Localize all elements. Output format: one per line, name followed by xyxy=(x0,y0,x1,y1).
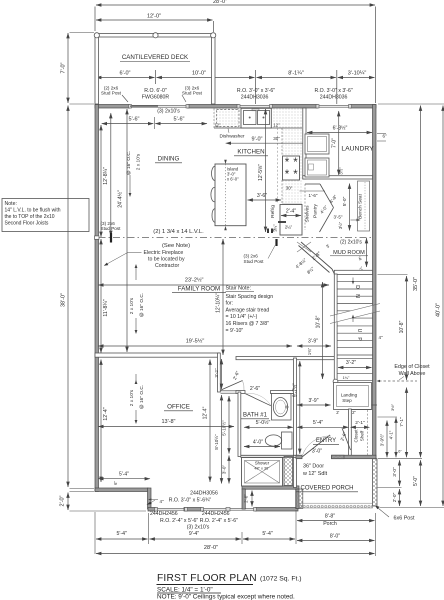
wall porch west xyxy=(296,489,299,509)
pantry angled front xyxy=(320,184,334,208)
svg-text:2": 2" xyxy=(352,410,356,415)
svg-text:Stair Note:: Stair Note: xyxy=(226,286,251,292)
svg-text:30": 30" xyxy=(286,186,293,191)
svg-text:Step: Step xyxy=(342,398,352,403)
stair break diagonals xyxy=(337,305,372,321)
svg-text:4'-1": 4'-1" xyxy=(389,430,394,439)
dim 7'-1" closet right xyxy=(406,388,408,458)
window sliding door FWG6080R xyxy=(130,104,188,106)
front door sill+sidelight xyxy=(332,455,345,459)
svg-text:(3) 2x10's: (3) 2x10's xyxy=(187,524,210,530)
svg-text:x 6'-0": x 6'-0" xyxy=(227,177,239,182)
svg-text:*: * xyxy=(285,169,290,181)
wall bath north xyxy=(236,391,245,394)
svg-text:ENTRY: ENTRY xyxy=(316,438,336,444)
window 244DH3036 #1 in top wall xyxy=(239,104,272,106)
svg-text:2¼": 2¼" xyxy=(285,225,293,230)
island dim line dotted xyxy=(225,164,227,226)
dim 28'-0" overall width (top) xyxy=(96,4,375,6)
svg-text:Contractor: Contractor xyxy=(155,263,179,269)
dim 12'-4" office right xyxy=(209,360,211,483)
dim 2'-0" jog (left) xyxy=(67,493,69,511)
svg-text:FWG6080R: FWG6080R xyxy=(142,95,170,101)
post ticks at island-right xyxy=(267,229,269,234)
deck post circles xyxy=(94,33,99,38)
svg-text:for:: for: xyxy=(226,301,234,307)
svg-text:244DH3056: 244DH3056 xyxy=(190,491,218,497)
svg-text:3'-9": 3'-9" xyxy=(309,398,319,404)
svg-text:3½": 3½" xyxy=(339,167,344,175)
dim 2'-0" bath nook xyxy=(251,491,253,507)
svg-text:R.O. 3'-0" x 3'-6": R.O. 3'-0" x 3'-6" xyxy=(314,88,352,94)
svg-text:Stud Post: Stud Post xyxy=(101,226,122,231)
closet shelf dashed xyxy=(367,410,369,455)
svg-text:5'-0": 5'-0" xyxy=(342,196,348,206)
dims office notch 3'-2" 8'-10 1/2" xyxy=(221,359,223,389)
svg-text:D: D xyxy=(354,285,360,289)
svg-text:9'-4": 9'-4" xyxy=(189,531,199,537)
range/cooktop with burners xyxy=(283,156,300,180)
svg-text:Landing: Landing xyxy=(341,393,358,398)
svg-text:12'-5⅝": 12'-5⅝" xyxy=(258,164,264,181)
kitchen sink counter xyxy=(241,108,271,128)
toilet xyxy=(282,432,293,449)
dim 10'-8" hall/stairs xyxy=(322,282,324,379)
svg-text:= 10 1/4" (+/-): = 10 1/4" (+/-) xyxy=(226,314,258,320)
wall office east notch xyxy=(218,353,221,392)
svg-text:BATH #1: BATH #1 xyxy=(243,413,268,419)
svg-text:5'-4": 5'-4" xyxy=(117,531,127,537)
svg-text:12": 12" xyxy=(273,122,280,127)
svg-text:4": 4" xyxy=(160,499,165,504)
wall shower north xyxy=(241,454,300,456)
svg-text:SCALE: 1/4" = 1'-0": SCALE: 1/4" = 1'-0" xyxy=(157,587,213,594)
bath vanity xyxy=(272,394,292,421)
wall front (south, office) xyxy=(148,508,156,512)
svg-text:= 9'-10": = 9'-10" xyxy=(226,328,244,334)
svg-text:10'-0": 10'-0" xyxy=(192,71,206,77)
mud room x-brace xyxy=(297,242,311,252)
dim 4'-1" closet xyxy=(395,418,397,458)
dashed edge of closet wall above xyxy=(379,380,417,382)
svg-text:3'-2": 3'-2" xyxy=(214,368,219,378)
office door leaf xyxy=(221,381,243,391)
svg-text:Second Floor Joists: Second Floor Joists xyxy=(5,221,49,227)
svg-text:28'-0": 28'-0" xyxy=(204,545,218,551)
svg-text:6": 6" xyxy=(113,481,118,485)
svg-text:w 12" Sdlt: w 12" Sdlt xyxy=(302,471,328,477)
newel circle xyxy=(333,379,338,384)
dim 19'-5 1/2" xyxy=(98,345,292,347)
svg-text:4": 4" xyxy=(379,335,384,340)
svg-text:@ 16" O.C.: @ 16" O.C. xyxy=(126,151,132,175)
svg-text:(1072 Sq. Ft.): (1072 Sq. Ft.) xyxy=(260,576,302,583)
svg-text:3½": 3½" xyxy=(338,221,343,229)
svg-text:8'-8": 8'-8" xyxy=(325,513,335,519)
svg-text:KITCHEN: KITCHEN xyxy=(237,149,264,156)
shower 48x36 xyxy=(242,458,283,487)
svg-text:2 x 10's: 2 x 10's xyxy=(136,153,142,170)
dim 10'-8" right exterior xyxy=(406,276,408,380)
svg-text:@ 16" O.C.: @ 16" O.C. xyxy=(139,293,145,317)
svg-text:12'-4": 12'-4" xyxy=(202,406,208,419)
svg-text:6x6 Post: 6x6 Post xyxy=(394,516,415,522)
svg-text:R.O. 3'-0" x 5'-6¾": R.O. 3'-0" x 5'-6¾" xyxy=(169,498,212,504)
dim 7'-0" deck depth (left) xyxy=(67,33,69,103)
svg-text:DINING: DINING xyxy=(158,156,180,163)
wall laundry south xyxy=(303,176,373,179)
closet north edge xyxy=(351,409,371,411)
svg-text:(2) 2x10's: (2) 2x10's xyxy=(340,240,362,246)
svg-text:LAUNDRY: LAUNDRY xyxy=(341,146,374,153)
svg-text:Stud Post: Stud Post xyxy=(101,91,122,96)
svg-text:30": 30" xyxy=(273,136,280,141)
svg-text:6'-8½": 6'-8½" xyxy=(333,125,348,132)
svg-text:2 x 10's: 2 x 10's xyxy=(129,297,135,314)
svg-text:40'-0": 40'-0" xyxy=(435,303,441,317)
svg-text:Closet: Closet xyxy=(354,429,359,443)
svg-text:5'-6": 5'-6" xyxy=(174,117,185,123)
svg-text:5'-4": 5'-4" xyxy=(262,531,272,537)
washer xyxy=(305,134,329,154)
svg-text:3'-2": 3'-2" xyxy=(346,360,356,366)
svg-text:3'-9½": 3'-9½" xyxy=(380,433,385,446)
wall family-room south (office north) xyxy=(95,353,220,357)
svg-text:1'-6": 1'-6" xyxy=(309,193,318,198)
wall bath/entry east xyxy=(294,358,297,488)
dryer xyxy=(305,158,329,177)
svg-text:to be located by: to be located by xyxy=(148,256,185,262)
dim 2'-0" porch xyxy=(399,489,401,506)
dim 9'-0" kitchen + 30" xyxy=(226,142,314,144)
svg-text:8'-10½": 8'-10½" xyxy=(213,434,219,450)
svg-text:Refrig: Refrig xyxy=(270,205,276,218)
svg-text:Wall Above: Wall Above xyxy=(399,371,426,377)
svg-text:19'-5½": 19'-5½" xyxy=(186,338,205,345)
svg-text:3½": 3½" xyxy=(390,403,395,411)
svg-text:Average stair tread: Average stair tread xyxy=(226,307,270,313)
svg-text:3'-5": 3'-5" xyxy=(334,214,343,219)
svg-text:3'-0": 3'-0" xyxy=(392,467,398,477)
svg-text:24'-4½": 24'-4½" xyxy=(117,190,124,208)
svg-text:13'-8": 13'-8" xyxy=(161,419,175,425)
dim 3'-6" island to counter xyxy=(248,199,282,201)
svg-text:*: * xyxy=(293,157,298,169)
cantilevered deck walls xyxy=(95,34,215,38)
dim 11'-8 1/4" family (interior left) xyxy=(100,239,102,353)
dim 5'-6" / 5'-6" below slider xyxy=(102,123,154,125)
landing step box xyxy=(334,383,372,410)
dim 5'-0 1/2" bath xyxy=(244,426,293,428)
svg-text:1¼": 1¼" xyxy=(343,376,350,380)
linen/chase hatched xyxy=(284,457,293,486)
wall exterior right (east) xyxy=(373,105,377,459)
svg-text:6'-0": 6'-0" xyxy=(120,71,131,77)
svg-text:12'-4": 12'-4" xyxy=(103,407,109,420)
svg-text:3'-9": 3'-9" xyxy=(308,339,318,345)
mud room angled wall xyxy=(301,242,332,269)
svg-text:Porch: Porch xyxy=(323,521,337,527)
svg-text:OFFICE: OFFICE xyxy=(167,404,190,411)
svg-text:R.O. 2'-4" x 5'-6" R.O. 2: R.O. 2'-4" x 5'-6" R.O. 2'-4" x 5'-6" xyxy=(160,518,238,524)
svg-text:11'-8¼": 11'-8¼" xyxy=(103,299,109,316)
kitchen island xyxy=(215,164,246,226)
svg-text:38'-0": 38'-0" xyxy=(61,293,67,307)
dim 35'-0" (right) xyxy=(420,106,422,458)
svg-text:(See Note): (See Note) xyxy=(162,243,190,249)
pantry dashed west line xyxy=(304,184,306,230)
kitchen double sink bowls xyxy=(244,111,257,125)
dim 9'-7 1/2" bath east xyxy=(299,361,301,454)
svg-text:COVERED PORCH: COVERED PORCH xyxy=(300,486,353,492)
wall stairs west xyxy=(334,274,337,382)
wall exterior top (north) xyxy=(95,105,130,109)
dims office east edge 5'-10 1/2" 3'-0" xyxy=(228,396,230,454)
svg-text:7'-0": 7'-0" xyxy=(61,62,67,73)
front door leaf + swing xyxy=(302,435,330,457)
porch west hatched xyxy=(296,489,303,509)
stair treads lower (UP) xyxy=(337,325,372,327)
office door sill xyxy=(221,390,237,392)
svg-text:2': 2' xyxy=(336,410,339,415)
windows 244DH2456 pair in front wall xyxy=(202,507,255,509)
dim 23'-2 1/2" xyxy=(98,284,329,286)
svg-text:244DH3036: 244DH3036 xyxy=(320,95,348,101)
dim 12'-4" office (interior left) xyxy=(100,360,102,483)
svg-text:R.O. 3'-0" x 3'-6": R.O. 3'-0" x 3'-6" xyxy=(237,88,275,94)
svg-text:MUD ROOM: MUD ROOM xyxy=(333,250,365,256)
svg-text:35'-0": 35'-0" xyxy=(413,277,419,291)
kitchen counter stipple top xyxy=(214,109,241,128)
dim 24'-4 1/2" (interior left) xyxy=(126,109,128,352)
kitchen counter front edge xyxy=(214,127,302,129)
note box 14" LVL xyxy=(2,199,89,232)
wall hall south (right part) xyxy=(236,357,335,360)
svg-text:2'-1": 2'-1" xyxy=(355,420,365,426)
stair landing edges xyxy=(337,372,372,374)
svg-text:CANTILEVERED DECK: CANTILEVERED DECK xyxy=(122,54,189,61)
svg-text:U: U xyxy=(356,329,362,333)
wall kitchen/laundry (pantry west) xyxy=(303,108,306,179)
svg-text:FIRST FLOOR PLAN: FIRST FLOOR PLAN xyxy=(157,573,257,584)
dim 5'-0" bench xyxy=(349,184,351,231)
svg-text:244DH2456: 244DH2456 xyxy=(202,511,230,517)
wall jog bottom-left (office south-west) xyxy=(95,488,148,492)
dim 3'-9" hall width xyxy=(297,345,331,347)
svg-text:2'-0": 2'-0" xyxy=(60,495,66,506)
svg-text:2'-4": 2'-4" xyxy=(286,209,296,215)
svg-text:7'-1": 7'-1" xyxy=(399,417,405,427)
right extension lines xyxy=(378,103,444,105)
svg-text:5'-6": 5'-6" xyxy=(129,117,140,123)
kitchen counter east strip xyxy=(282,128,302,204)
svg-text:(3) 2x6: (3) 2x6 xyxy=(244,254,259,259)
svg-text:Dishwasher: Dishwasher xyxy=(219,134,244,140)
dim 3'-0" porch xyxy=(399,460,401,486)
dim 12'-10 1/4" family right xyxy=(222,239,224,355)
svg-text:16 Risers @ 7 3/8": 16 Risers @ 7 3/8" xyxy=(226,321,270,327)
svg-text:10'-8": 10'-8" xyxy=(399,320,405,333)
svg-text:5'-0½": 5'-0½" xyxy=(256,419,271,426)
bench seat (dashed) xyxy=(358,181,370,231)
bath door leaf xyxy=(245,394,271,406)
dim 5'-4" office lower-left xyxy=(98,478,150,480)
svg-text:2'-6": 2'-6" xyxy=(250,386,260,392)
porch east hatched post/wall xyxy=(373,459,378,506)
svg-text:7'-0": 7'-0" xyxy=(331,138,337,148)
wall closet west xyxy=(349,409,352,457)
svg-text:4'-0": 4'-0" xyxy=(253,439,263,445)
svg-text:12'-0": 12'-0" xyxy=(147,14,161,20)
svg-text:(2) 1 3/4 x 14 L.V.L.: (2) 1 3/4 x 14 L.V.L. xyxy=(153,229,204,235)
svg-text:6": 6" xyxy=(382,134,387,139)
dim 7'-0" laundry depth xyxy=(338,111,340,175)
svg-text:Stud Post: Stud Post xyxy=(244,259,265,264)
svg-text:9'-0": 9'-0" xyxy=(252,136,263,142)
svg-text:10'-8": 10'-8" xyxy=(315,315,321,328)
svg-text:Stud Post: Stud Post xyxy=(182,91,203,96)
svg-text:12'-10¼": 12'-10¼" xyxy=(216,293,222,313)
dim 6'-8 1/2" laundry xyxy=(307,132,372,134)
dim 5'-4" + 2'-1" entry row xyxy=(297,426,349,428)
svg-text:23'-2½": 23'-2½" xyxy=(185,277,204,284)
wall entry south xyxy=(296,455,302,459)
svg-text:the to TOP of the 2x10: the to TOP of the 2x10 xyxy=(5,214,55,220)
svg-text:244DH2456: 244DH2456 xyxy=(150,511,178,517)
svg-text:12'-8¼": 12'-8¼" xyxy=(103,167,109,185)
svg-text:Electric Fireplace: Electric Fireplace xyxy=(144,250,184,256)
stair treads upper (DN) xyxy=(337,281,372,283)
svg-text:2 x 10's: 2 x 10's xyxy=(129,389,135,406)
svg-text:Shelves: Shelves xyxy=(305,205,311,223)
svg-text:NOTE: 9'-0" Ceilings typical: NOTE: 9'-0" Ceilings typical except wher… xyxy=(157,594,295,600)
svg-text:2'-0": 2'-0" xyxy=(244,494,249,503)
porch south dotted edge xyxy=(299,503,373,508)
svg-text:Note:: Note: xyxy=(5,201,17,207)
svg-text:5'-4": 5'-4" xyxy=(119,471,129,477)
svg-text:Edge of Closet: Edge of Closet xyxy=(394,364,430,370)
dishwasher (dashed box) xyxy=(217,110,240,127)
svg-text:Stair Spacing design: Stair Spacing design xyxy=(226,294,274,300)
mud dim arrow xyxy=(366,238,368,267)
svg-text:5'-0": 5'-0" xyxy=(413,476,419,486)
svg-text:Shelf: Shelf xyxy=(360,430,365,441)
svg-text:3'-10¼": 3'-10¼" xyxy=(348,71,367,77)
wall exterior left (west) xyxy=(95,105,99,492)
LVL dashed beam line xyxy=(99,236,373,238)
svg-text:12": 12" xyxy=(214,122,221,127)
stud post tick kitchen + label xyxy=(275,239,277,246)
wall bath south xyxy=(242,486,299,489)
svg-text:2'-0": 2'-0" xyxy=(392,492,398,502)
dim 13'-8" office xyxy=(98,426,234,428)
svg-text:(3) 2x10's: (3) 2x10's xyxy=(157,109,180,115)
svg-text:8'-0": 8'-0" xyxy=(330,533,340,539)
svg-text:3'-6": 3'-6" xyxy=(257,193,267,199)
svg-text:FAMILY ROOM: FAMILY ROOM xyxy=(178,285,220,292)
dim 5'-0" porch (right) xyxy=(420,460,422,506)
svg-text:9'-7½": 9'-7½" xyxy=(291,383,298,397)
dim 4'-0" bath xyxy=(244,446,280,448)
dim 12'-5 5/8" kitchen interior xyxy=(265,109,267,232)
island stools (3 half-ellipses) xyxy=(211,166,214,180)
svg-text:N: N xyxy=(354,294,360,298)
svg-text:1¾": 1¾" xyxy=(307,347,312,355)
window 244DH3036 #2 in top wall xyxy=(318,104,351,106)
svg-text:8'-1¼": 8'-1¼" xyxy=(288,71,304,77)
svg-text:5'-4": 5'-4" xyxy=(313,420,323,426)
dim 12'-8 1/4" dining (interior left) xyxy=(100,125,102,237)
dim 38'-0" house depth (left) xyxy=(67,106,69,488)
svg-text:*: * xyxy=(285,157,290,169)
wall stairs north xyxy=(334,270,372,274)
svg-text:3'-0": 3'-0" xyxy=(312,449,322,455)
svg-text:36" Door: 36" Door xyxy=(303,464,324,470)
window 244DH3056 in front wall xyxy=(156,507,186,509)
dim 12'-0" deck width xyxy=(96,19,213,21)
svg-text:3'-0": 3'-0" xyxy=(221,465,226,475)
svg-text:@ 16" O.C.: @ 16" O.C. xyxy=(139,385,145,409)
closet door leaf xyxy=(342,428,351,450)
LVL wall square at left wall xyxy=(95,236,100,239)
svg-text:Shower: Shower xyxy=(255,461,270,466)
dim 3'-9" entry xyxy=(297,404,331,406)
svg-text:Bench Seat: Bench Seat xyxy=(358,193,364,218)
svg-text:14" L.V.L. to be flush with: 14" L.V.L. to be flush with xyxy=(5,208,61,214)
dim 40'-0" (far right) xyxy=(442,106,444,507)
svg-text:*: * xyxy=(293,169,298,181)
svg-text:244DH3036: 244DH3036 xyxy=(241,95,269,101)
stud post tick at x111 xyxy=(110,233,112,243)
refrigerator xyxy=(280,205,302,236)
svg-text:Pantry: Pantry xyxy=(313,203,319,217)
dim 3'-9 1/2" closet xyxy=(386,421,388,458)
svg-text:28'-0": 28'-0" xyxy=(213,0,227,5)
wall bath west xyxy=(238,392,241,457)
svg-text:R.O. 6'-0": R.O. 6'-0" xyxy=(144,88,167,94)
dim row 6'-0" / 10'-0" / 8'-1 1/4" / 3'-10 1/4" xyxy=(96,77,155,79)
